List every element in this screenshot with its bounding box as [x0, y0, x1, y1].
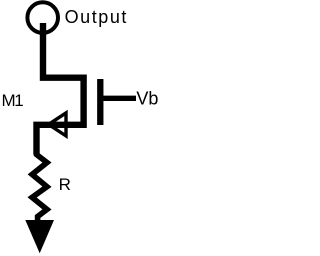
svg-text:M1: M1 — [2, 91, 24, 110]
ground — [25, 220, 54, 253]
svg-text:Output: Output — [65, 7, 128, 27]
node Output terminal circle — [27, 2, 58, 33]
wire drain-channel-source path of M1 — [37, 23, 84, 155]
resistor R zigzag — [32, 151, 47, 221]
svg-text:R: R — [59, 175, 71, 194]
transistor M1 source arrow — [49, 113, 67, 136]
svg-text:Vb: Vb — [136, 89, 158, 109]
wire gate lead to Vb — [103, 96, 136, 101]
transistor M1 gate bar — [97, 79, 103, 125]
